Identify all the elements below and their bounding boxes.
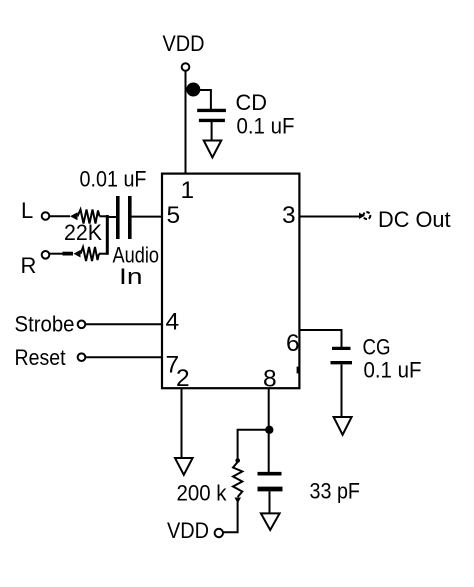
svg-text:33 pF: 33 pF <box>310 479 361 504</box>
svg-text:2: 2 <box>176 365 190 392</box>
svg-text:CG: CG <box>363 335 391 360</box>
wire pin 2 to ground <box>181 389 183 458</box>
wire CG to ground <box>341 365 343 417</box>
wire Reset to pin 7 <box>85 356 162 358</box>
svg-text:R: R <box>21 253 37 278</box>
IC U1 (8-pin chip body) <box>162 174 299 389</box>
junction dot (pin 8 node) <box>265 426 273 434</box>
ground (pin 2) <box>175 458 193 475</box>
ground (below 33 pF) <box>261 513 280 530</box>
resistor 22K (L channel) <box>70 210 107 224</box>
wire VDD to pin 1 <box>185 71 187 174</box>
terminal Reset (open circle) <box>78 353 86 361</box>
capacitor 0.01 uF <box>118 196 130 239</box>
wire resistor to VDD terminal <box>224 502 238 532</box>
svg-text:VDD: VDD <box>167 518 209 543</box>
terminal R (open circle) <box>42 251 50 259</box>
svg-text:22K: 22K <box>64 220 102 245</box>
wire CD to ground <box>211 122 213 140</box>
capacitor CG <box>331 348 353 362</box>
wire pin 3 to DC Out <box>299 216 360 218</box>
wire Strobe to pin 4 <box>85 323 162 325</box>
svg-text:6: 6 <box>286 330 300 357</box>
ground (below CG) <box>334 417 352 435</box>
wire artifact on right edge (thicker segment) <box>297 367 301 374</box>
svg-text:0.1 uF: 0.1 uF <box>364 358 422 383</box>
capacitor CD <box>197 110 226 120</box>
svg-text:DC Out: DC Out <box>378 207 451 232</box>
svg-text:0.1 uF: 0.1 uF <box>237 114 295 139</box>
svg-text:5: 5 <box>167 202 181 229</box>
terminal L (open circle) <box>42 212 50 220</box>
junction dot (VDD / CD) <box>186 83 200 97</box>
svg-text:3: 3 <box>282 202 296 229</box>
svg-text:L: L <box>21 198 33 223</box>
svg-text:VDD: VDD <box>163 31 205 56</box>
junction dot (resistor top) <box>235 458 240 463</box>
svg-text:200 k: 200 k <box>177 481 228 506</box>
terminal VDD top (open circle) <box>182 63 190 71</box>
terminal Strobe (open circle) <box>78 321 86 329</box>
wire capacitor to pin 5 <box>132 216 163 218</box>
svg-text:Strobe: Strobe <box>15 312 75 337</box>
resistor 200 k <box>233 462 242 504</box>
wire junction to resistor branch <box>238 430 269 459</box>
ground (below CD) <box>204 141 222 158</box>
wire node to capacitor <box>108 216 117 218</box>
junction bar (L/R mix node) <box>106 215 109 255</box>
svg-text:8: 8 <box>263 366 277 393</box>
wire L to resistor <box>49 215 70 217</box>
svg-text:CD: CD <box>236 90 268 115</box>
wire pin 8 down <box>268 389 270 473</box>
capacitor 33 pF <box>258 474 283 489</box>
svg-text:0.01 uF: 0.01 uF <box>80 167 147 192</box>
wire R to resistor <box>49 253 63 255</box>
svg-text:4: 4 <box>166 309 180 336</box>
wire pin 6 to capacitor CG <box>299 330 341 347</box>
svg-text:1: 1 <box>181 177 195 204</box>
svg-text:Reset: Reset <box>15 345 66 370</box>
svg-text:In: In <box>119 264 143 289</box>
wire junction to capacitor CD <box>195 90 211 109</box>
resistor 22K (R channel) <box>63 247 108 261</box>
terminal DC Out (arrow + open circle) <box>359 212 370 219</box>
wire 33 pF to ground <box>269 491 271 513</box>
terminal VDD bottom (open circle) <box>215 529 223 537</box>
